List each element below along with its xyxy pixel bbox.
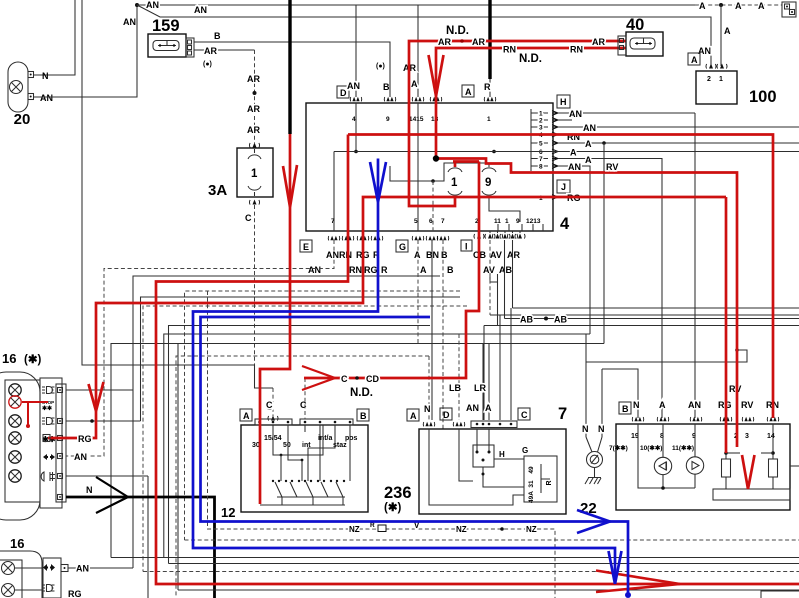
box4 pin 9: [384, 97, 396, 102]
svg-text:N.D.: N.D.: [446, 25, 469, 37]
svg-text:4: 4: [560, 215, 570, 233]
connector H: [557, 95, 570, 108]
red wire RN down-left bundle to bottom arrow: [156, 135, 799, 585]
heavy black wire left-centre: [288, 0, 291, 134]
red wire RV from junction through box B with arrow: [436, 159, 737, 448]
svg-text:AR: AR: [247, 74, 260, 84]
svg-text:A: A: [411, 79, 418, 89]
box label I: [461, 240, 472, 251]
wire LR into box7: [482, 344, 484, 421]
wire pin H2 stub: [558, 119, 572, 121]
component 100 pins: [706, 64, 716, 69]
wire AN pin H8: [558, 166, 590, 334]
svg-text:AN: AN: [194, 5, 207, 15]
wire AR from 159 down to fuse 3A: [194, 49, 255, 51]
blue arrow NZ: [577, 510, 610, 533]
red wire down from fuse area, jog, and ND C-CD line: [304, 162, 479, 379]
svg-text:N: N: [86, 485, 93, 495]
svg-text:AR: AR: [247, 104, 260, 114]
blue arrow bottom: [609, 551, 622, 584]
svg-text:D: D: [443, 410, 450, 420]
red wire RN from 40 down into box4: [436, 48, 626, 159]
svg-text:1: 1: [487, 116, 491, 123]
svg-text:C: C: [521, 410, 528, 420]
wire AV bracket down to y325 line: [497, 282, 499, 326]
wire N from lamp 20 up to top edge: [33, 0, 75, 75]
svg-text:I: I: [465, 242, 468, 252]
svg-text:N: N: [598, 424, 605, 434]
wire into box7 pin 511: [510, 308, 512, 420]
red fuse1 feed stub: [453, 162, 479, 168]
svg-text:R: R: [381, 265, 388, 275]
box4 internal wires: [355, 103, 357, 152]
wire NZ dashed: [208, 291, 556, 598]
svg-text:1: 1: [451, 177, 458, 189]
svg-text:AN: AN: [146, 0, 159, 10]
svg-text:1: 1: [539, 111, 543, 118]
wire B from 159 to box4 pin 9: [194, 42, 390, 97]
red arrow bottom: [596, 571, 680, 593]
svg-text:C: C: [266, 400, 273, 410]
svg-text:A: A: [243, 411, 250, 421]
svg-text:31: 31: [528, 480, 535, 488]
svg-text:AV: AV: [490, 250, 502, 260]
wire CB from group I down to y315 line: [489, 240, 491, 315]
svg-text:B: B: [383, 82, 390, 92]
svg-text:5: 5: [539, 141, 543, 148]
blue wire NZ: [201, 317, 629, 595]
bus bar inside B: [713, 489, 790, 500]
wire A dashed to small connector top right: [695, 4, 782, 6]
svg-text:A: A: [724, 26, 731, 36]
svg-text:LR: LR: [474, 383, 486, 393]
svg-text:R: R: [546, 480, 553, 485]
indicator lamp circles inside B: [654, 457, 671, 474]
tap from RV line to ground net: [735, 348, 739, 352]
svg-text:AN: AN: [568, 162, 581, 172]
svg-text:7: 7: [558, 405, 567, 423]
wire AN dashed to lamp unit 16: [66, 240, 334, 456]
red arrow on centre drop: [283, 165, 297, 207]
wire AN to box4 pin 4: [355, 5, 357, 97]
svg-text:AN: AN: [583, 123, 596, 133]
svg-text:AN: AN: [74, 452, 87, 462]
wire AN top line 1: [137, 4, 695, 6]
svg-text:AB: AB: [499, 265, 512, 275]
svg-text:AN: AN: [308, 265, 321, 275]
svg-text:RG: RG: [78, 434, 92, 444]
svg-text:49: 49: [528, 466, 535, 474]
svg-text:RN: RN: [503, 45, 516, 55]
wire B dashed from group G: [442, 240, 444, 429]
wire A dashed from group G: [417, 240, 419, 344]
svg-text:pos: pos: [345, 435, 358, 442]
icons in lamp cluster 16: [42, 387, 55, 394]
control unit box 4: [306, 103, 553, 231]
svg-text:AR: AR: [472, 37, 485, 47]
wire from lamp16 row down to bottom bundle: [147, 476, 149, 598]
svg-text:12: 12: [221, 505, 235, 520]
svg-text:10(✱✱): 10(✱✱): [640, 444, 662, 452]
wire AR/A to box4 pins 14 15: [417, 5, 419, 97]
svg-text:(●): (●): [203, 61, 212, 68]
svg-text:2: 2: [707, 76, 711, 83]
svg-text:✱✱: ✱✱: [42, 435, 56, 444]
svg-text:B: B: [447, 265, 454, 275]
box label A (top): [462, 85, 474, 97]
svg-text:AR: AR: [592, 37, 605, 47]
svg-text:A: A: [485, 403, 492, 413]
wires from lamp cluster 16: [66, 389, 133, 391]
red arrow on pin 18 wire: [429, 55, 444, 96]
svg-text:1: 1: [251, 168, 258, 180]
svg-text:A: A: [735, 1, 742, 11]
wire AN from lower 16: [68, 567, 133, 569]
svg-text:AN: AN: [347, 81, 360, 91]
wire C from 3A to box 12: [250, 200, 260, 205]
svg-text:3A: 3A: [208, 182, 227, 199]
wire N heavy with arrow: [66, 497, 215, 598]
svg-text:AR: AR: [204, 46, 217, 56]
svg-text:AN: AN: [76, 564, 89, 574]
lamp unit 20: [8, 62, 28, 112]
wire A pin H5: [558, 142, 799, 144]
fuse 9 inside box4: [482, 168, 496, 195]
svg-text:AN: AN: [466, 403, 479, 413]
blue wire R from box4 to bottom with arrow: [193, 159, 615, 585]
wire A pin H7 to box B: [558, 159, 662, 419]
wire black bundle y297 down left edge: [141, 297, 461, 421]
svg-text:CD: CD: [366, 374, 379, 384]
svg-text:7(✱✱): 7(✱✱): [609, 444, 628, 452]
svg-text:C: C: [300, 400, 307, 410]
svg-text:AR: AR: [438, 37, 451, 47]
wire vertical left edge into bundle: [82, 0, 273, 388]
svg-text:N.D.: N.D.: [350, 387, 373, 399]
svg-text:H: H: [560, 97, 567, 107]
bottom bundle wires: [185, 539, 799, 541]
wire AN from lamp 20 to junction: [33, 5, 137, 97]
fuse box 3A: [237, 148, 273, 197]
svg-text:D: D: [340, 88, 347, 98]
svg-text:A: A: [410, 411, 417, 421]
svg-text:AN: AN: [688, 400, 701, 410]
switch box 12: [241, 425, 368, 512]
svg-text:159: 159: [152, 17, 180, 35]
red wire AR from 40 to fuse 1: [409, 41, 626, 206]
svg-text:6: 6: [539, 149, 543, 156]
svg-text:N: N: [424, 404, 431, 414]
svg-text:LB: LB: [449, 383, 461, 393]
svg-text:40: 40: [626, 16, 644, 34]
wire dashed bundle y291: [185, 291, 461, 540]
node AN junction top: [135, 3, 139, 7]
svg-text:(✱): (✱): [384, 502, 401, 514]
svg-text:NZ: NZ: [526, 525, 537, 534]
wire BN from group G to box7 N pin: [431, 240, 433, 420]
box12 internal wiring: [273, 425, 323, 455]
box label B: [619, 402, 631, 414]
svg-text:R: R: [370, 522, 375, 529]
red internal wiring lamp16: [22, 402, 48, 426]
svg-text:C: C: [245, 213, 252, 223]
heavy red drop centre (into box 12): [260, 134, 290, 504]
svg-text:G: G: [399, 242, 406, 252]
box4 pin 18 (red feed): [430, 97, 442, 102]
wire AN pin H1 vertical to box B: [694, 113, 696, 418]
svg-text:RV: RV: [606, 162, 618, 172]
wire N dashed into box7: [428, 356, 430, 420]
svg-text:5: 5: [414, 218, 418, 225]
box7 internals: [473, 445, 494, 467]
svg-text:AV: AV: [483, 265, 495, 275]
svg-text:RV: RV: [741, 400, 753, 410]
lamp control box B: [616, 424, 790, 510]
svg-text:E: E: [303, 242, 309, 252]
wire N to ground 22 right: [602, 369, 638, 418]
box label D: [337, 86, 349, 98]
svg-text:RG: RG: [364, 265, 378, 275]
relay G inside box7: [524, 456, 557, 502]
wire AN pin H3 to right edge: [558, 126, 799, 128]
svg-text:B: B: [360, 411, 367, 421]
component 100: [696, 71, 737, 104]
svg-text:6: 6: [429, 218, 433, 225]
wire LB dashed into box7: [458, 334, 460, 420]
svg-text:R: R: [484, 82, 491, 92]
red arrow on RG drop to lamp 16: [89, 382, 104, 411]
corner box bottom right: [761, 591, 799, 598]
wire black bundle y325 left: [169, 326, 431, 564]
svg-text:A: A: [570, 148, 577, 158]
svg-text:H: H: [499, 450, 505, 459]
svg-text:N: N: [633, 400, 640, 410]
resistors inside B: [722, 459, 731, 477]
svg-text:11(✱✱): 11(✱✱): [672, 444, 694, 452]
svg-text:A: A: [659, 400, 666, 410]
wire AR from group I down to y308 line: [512, 240, 514, 308]
wire AB from group I to right edge: [504, 240, 506, 319]
svg-text:G: G: [522, 446, 528, 455]
svg-text:A: A: [585, 139, 592, 149]
wire black bundle y343 (A pin H5): [111, 344, 604, 558]
node junction blue/red: [433, 155, 439, 161]
box label A near 100: [688, 53, 700, 65]
svg-text:B: B: [441, 250, 448, 260]
svg-text:AR: AR: [507, 250, 520, 260]
svg-text:8: 8: [539, 164, 543, 171]
svg-text:20: 20: [14, 111, 31, 128]
red wire RN H4 across to box B: [348, 135, 773, 419]
svg-text:1415: 1415: [409, 116, 424, 123]
wire AN pin H1: [558, 112, 695, 114]
svg-text:N: N: [42, 71, 49, 81]
svg-text:3: 3: [539, 125, 543, 132]
svg-text:N: N: [582, 424, 589, 434]
svg-text:AR: AR: [247, 125, 260, 135]
wire A pin H6: [334, 151, 799, 153]
svg-text:9: 9: [386, 116, 390, 123]
svg-text:7: 7: [441, 218, 445, 225]
box label G: [396, 240, 408, 252]
red arrow on C-CD line: [302, 366, 335, 390]
svg-text:14: 14: [767, 433, 775, 440]
box4 pin 1 (R): [484, 97, 496, 102]
svg-text:3: 3: [745, 433, 749, 440]
svg-text:AN: AN: [569, 109, 582, 119]
svg-text:RN: RN: [349, 265, 362, 275]
wire C dashed from ND line into box12: [304, 378, 306, 419]
svg-text:NZ: NZ: [349, 525, 360, 534]
svg-text:2: 2: [539, 118, 543, 125]
svg-text:A: A: [585, 155, 592, 165]
svg-text:A: A: [758, 1, 765, 11]
svg-text:A: A: [699, 1, 706, 11]
svg-text:RN: RN: [570, 45, 583, 55]
svg-text:AB: AB: [554, 315, 567, 325]
wire black bundle y334 (AN pin H8): [164, 334, 590, 558]
svg-text:(✱): (✱): [24, 354, 41, 366]
svg-text:9: 9: [485, 177, 491, 189]
svg-text:C: C: [341, 374, 348, 384]
svg-text:16: 16: [2, 351, 16, 366]
svg-text:RG: RG: [68, 589, 82, 598]
svg-text:B: B: [622, 404, 629, 414]
svg-text:A: A: [420, 265, 427, 275]
heavy black wire R centre: [488, 0, 491, 79]
svg-text:✱✱: ✱✱: [42, 405, 52, 412]
svg-text:100: 100: [749, 88, 777, 106]
svg-text:49A: 49A: [528, 491, 535, 503]
connector block top right corner: [782, 2, 796, 17]
svg-text:4: 4: [352, 116, 356, 123]
wire A down to component 100: [720, 5, 722, 66]
red arrow RV inside box B: [742, 455, 755, 489]
svg-text:1: 1: [505, 218, 509, 225]
bracket under AV: [490, 274, 498, 282]
blue arrow inside box4: [370, 162, 386, 202]
wire dashed bundle y306: [143, 306, 467, 572]
wire black bundle y276 to lamp16 AN row: [133, 276, 440, 568]
svg-text:AB: AB: [520, 315, 533, 325]
box B internal wires: [638, 424, 695, 488]
red wire RG from J pin both directions: [48, 197, 726, 438]
wire dashed bundle y356: [176, 356, 429, 598]
connector J: [557, 180, 570, 193]
svg-text:RV: RV: [729, 384, 741, 394]
svg-text:J: J: [561, 182, 566, 192]
svg-text:16: 16: [10, 536, 24, 551]
svg-text:7: 7: [331, 218, 335, 225]
svg-text:9: 9: [516, 218, 520, 225]
svg-text:1: 1: [719, 76, 723, 83]
svg-text:B: B: [214, 31, 221, 41]
svg-text:7: 7: [539, 156, 543, 163]
relay box 7: [419, 429, 566, 514]
svg-text:(●): (●): [376, 63, 385, 70]
svg-text:NZ: NZ: [456, 525, 467, 534]
svg-text:11: 11: [494, 218, 501, 225]
svg-text:A: A: [465, 87, 472, 97]
svg-text:A: A: [691, 55, 698, 65]
svg-text:50: 50: [283, 442, 291, 449]
box7 pin bracket C: [471, 421, 517, 428]
fuse 1 inside box4: [448, 168, 462, 195]
svg-text:AN: AN: [40, 93, 53, 103]
box label E: [300, 240, 312, 252]
svg-text:1213: 1213: [526, 218, 541, 225]
svg-text:N.D.: N.D.: [519, 53, 542, 65]
wire AN top line 2: [137, 5, 711, 66]
svg-text:236: 236: [384, 484, 412, 502]
svg-text:AN: AN: [123, 17, 136, 27]
wire N to ground 22 left: [585, 334, 587, 437]
